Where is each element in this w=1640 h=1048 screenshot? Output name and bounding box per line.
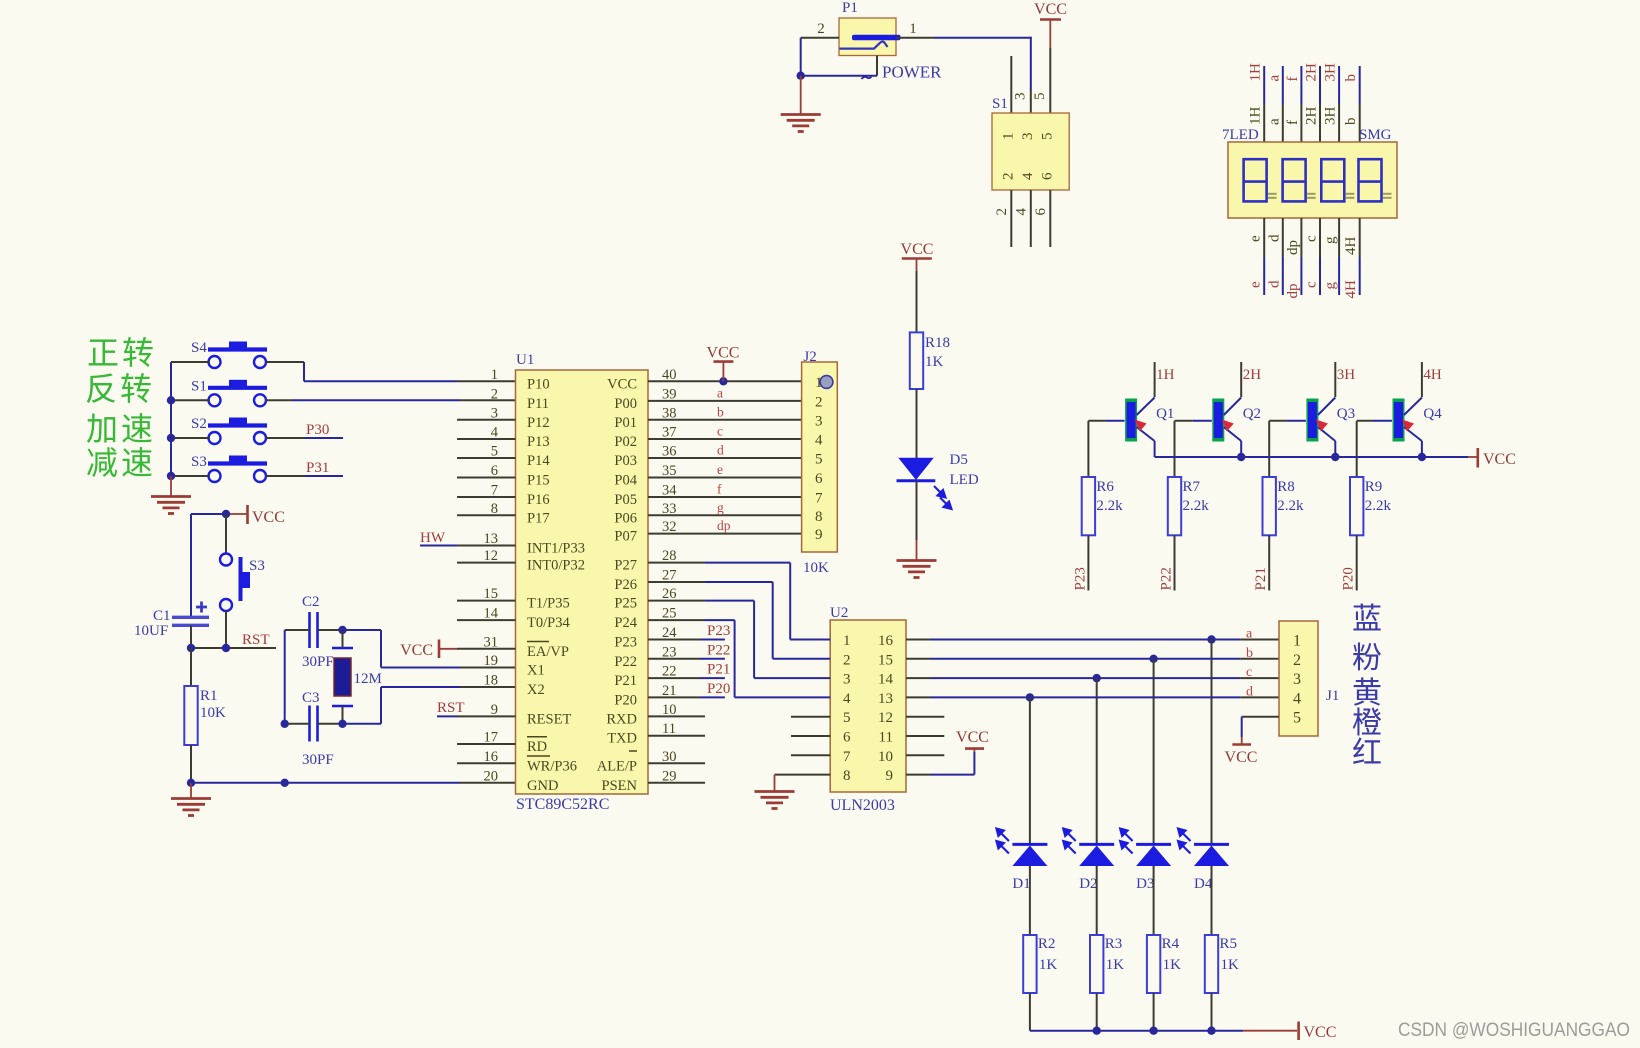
svg-text:d: d: [1246, 684, 1253, 699]
transistor Q2: [1212, 399, 1224, 442]
svg-text:1K: 1K: [1106, 957, 1125, 973]
wire SMG top pin 3: [1300, 66, 1302, 104]
svg-text:6: 6: [843, 730, 851, 746]
svg-text:P20: P20: [707, 681, 730, 697]
svg-text:红: 红: [1352, 737, 1382, 770]
wire U1 P03 to J2 (net d): [648, 457, 802, 459]
svg-text:反转: 反转: [85, 371, 155, 407]
svg-text:黄: 黄: [1352, 677, 1382, 710]
connector J2 (10K network): [802, 362, 838, 552]
svg-text:P17: P17: [527, 510, 550, 526]
junction net a: [1207, 635, 1215, 643]
wire R8 to net P21: [1268, 535, 1270, 590]
J2 pin1 marker circle: [820, 376, 833, 389]
capacitor C3: [308, 706, 311, 742]
svg-text:VCC: VCC: [956, 729, 989, 746]
junction ground rail R1: [187, 779, 195, 787]
junction RST-S3: [222, 644, 230, 652]
svg-text:GND: GND: [527, 778, 558, 794]
svg-text:15: 15: [878, 652, 893, 668]
wire SMG bottom pin 2: [1282, 218, 1284, 257]
svg-text:2: 2: [994, 208, 1010, 216]
wire SMG top pin 6: [1359, 66, 1361, 104]
7-seg digit 4: [1359, 159, 1382, 201]
svg-text:5: 5: [815, 452, 823, 468]
junction rail D3: [1149, 1027, 1157, 1035]
wire U1 P24 to U2 pin4: [648, 619, 705, 621]
svg-text:30PF: 30PF: [302, 752, 334, 768]
wire R2 to rail: [1029, 993, 1031, 1031]
svg-text:P31: P31: [306, 460, 329, 476]
svg-text:dp: dp: [1285, 240, 1301, 255]
svg-text:INT0/P32: INT0/P32: [527, 558, 585, 574]
wire U2 pin 5 stub: [791, 716, 830, 718]
junction X2 node: [338, 720, 346, 728]
junction emitter Q2: [1237, 453, 1245, 461]
wire button bus stubs: [171, 361, 210, 363]
svg-text:g: g: [1323, 236, 1339, 244]
svg-text:VCC: VCC: [252, 509, 285, 526]
svg-text:2H: 2H: [1304, 107, 1320, 126]
svg-text:P14: P14: [527, 453, 550, 469]
wire R18 to D5: [916, 389, 918, 458]
svg-text:e: e: [1248, 281, 1264, 288]
wire U1 stub net P21: [648, 677, 700, 679]
wire net a down to LED: [1211, 640, 1213, 845]
svg-text:5: 5: [1293, 710, 1301, 727]
wire S1 pin6 bottom: [1049, 190, 1051, 247]
svg-text:2: 2: [815, 394, 823, 410]
wire S3 stub net P31: [266, 475, 305, 477]
svg-text:c: c: [1246, 665, 1252, 680]
wire U2 pin15 to J1 pin2 (net b): [906, 658, 930, 660]
resistor R2 1K: [1023, 935, 1036, 993]
svg-text:4H: 4H: [1343, 280, 1359, 299]
wire U1 pin 15 stub: [457, 600, 516, 602]
ground at U2: [755, 790, 795, 793]
connector P1 (power jack): [839, 18, 896, 56]
svg-text:3H: 3H: [1337, 367, 1356, 383]
wire U1 pin 8 stub: [457, 514, 516, 516]
overline RD: [527, 736, 547, 738]
svg-text:1: 1: [491, 367, 498, 383]
junction emitter Q4: [1418, 453, 1426, 461]
svg-text:2.2k: 2.2k: [1365, 498, 1392, 514]
svg-text:3: 3: [491, 405, 498, 421]
svg-text:f: f: [1285, 120, 1301, 125]
svg-text:VCC: VCC: [607, 376, 637, 392]
svg-text:e: e: [1248, 235, 1264, 242]
svg-text:8: 8: [491, 501, 498, 517]
junction bus S2: [167, 434, 175, 442]
svg-text:CSDN @WOSHIGUANGGAO: CSDN @WOSHIGUANGGAO: [1398, 1020, 1630, 1041]
wire emitter rail to VCC: [1155, 456, 1468, 458]
svg-text:4: 4: [1293, 690, 1301, 707]
svg-text:P02: P02: [614, 434, 637, 450]
svg-text:S4: S4: [191, 340, 207, 356]
svg-text:Q4: Q4: [1423, 406, 1442, 422]
svg-text:RST: RST: [437, 700, 465, 716]
svg-text:1: 1: [843, 633, 851, 649]
svg-text:d: d: [717, 443, 724, 458]
svg-text:7: 7: [843, 749, 851, 765]
wire U1 pin 4 stub: [457, 438, 516, 440]
wire VCC to C1 column: [191, 513, 226, 515]
op-amp U1 body (MCU STC89C52RC): [516, 370, 649, 794]
wire SMG bottom pin 5: [1338, 218, 1340, 257]
svg-text:g: g: [1323, 282, 1339, 290]
transistor Q1: [1125, 399, 1137, 442]
svg-text:10: 10: [878, 749, 893, 765]
svg-text:19: 19: [484, 653, 499, 669]
svg-text:f: f: [1285, 77, 1301, 82]
svg-text:INT1/P33: INT1/P33: [527, 541, 585, 557]
svg-text:7LED: 7LED: [1222, 127, 1259, 143]
wire U1 P26 to U2 pin2: [648, 581, 705, 583]
wire U2 pin13 to J1 pin4 (net d): [906, 696, 930, 698]
svg-text:U2: U2: [830, 605, 848, 621]
wire U1 P01 to J2 (net b): [648, 419, 802, 421]
svg-text:1K: 1K: [925, 354, 944, 370]
svg-text:X1: X1: [527, 663, 545, 679]
svg-text:STC89C52RC: STC89C52RC: [516, 796, 609, 813]
svg-text:7: 7: [815, 491, 823, 507]
svg-text:P00: P00: [614, 396, 637, 412]
P1 pin 2: [801, 37, 839, 39]
wire to S3 top: [225, 514, 227, 554]
svg-text:SMG: SMG: [1359, 127, 1392, 143]
resistor R7 2.2k: [1174, 421, 1176, 477]
svg-text:c: c: [1304, 235, 1320, 242]
svg-text:a: a: [1266, 75, 1282, 82]
svg-text:4: 4: [815, 433, 823, 449]
svg-text:1K: 1K: [1039, 957, 1058, 973]
svg-text:P26: P26: [614, 577, 637, 593]
svg-text:10UF: 10UF: [134, 623, 168, 639]
svg-text:P23: P23: [614, 635, 637, 651]
svg-text:R6: R6: [1096, 479, 1114, 495]
overline EA: [527, 641, 549, 643]
svg-text:1H: 1H: [1248, 63, 1264, 82]
svg-text:C1: C1: [153, 608, 171, 624]
svg-text:VCC: VCC: [400, 642, 433, 659]
svg-text:4: 4: [1020, 172, 1036, 180]
wire R3 to rail: [1096, 993, 1098, 1031]
svg-text:2: 2: [817, 21, 825, 37]
svg-text:1H: 1H: [1248, 107, 1264, 126]
svg-text:D4: D4: [1194, 876, 1213, 892]
wire U1 pin 30 stub: [648, 762, 705, 764]
svg-text:P04: P04: [614, 473, 637, 489]
wire U1 pin 14 stub: [457, 619, 516, 621]
svg-text:12M: 12M: [354, 671, 382, 687]
svg-text:VCC: VCC: [1483, 451, 1516, 468]
svg-text:S2: S2: [191, 416, 207, 432]
svg-text:D3: D3: [1136, 876, 1154, 892]
pushbutton S4: [229, 342, 247, 350]
svg-text:g: g: [717, 500, 724, 515]
junction bus S3: [167, 472, 175, 480]
svg-text:P30: P30: [306, 422, 329, 438]
wire C2 left: [285, 629, 310, 631]
resistor R6 2.2k: [1087, 421, 1089, 477]
svg-text:J1: J1: [1326, 688, 1339, 704]
svg-text:P25: P25: [614, 596, 637, 612]
svg-text:蓝: 蓝: [1352, 603, 1382, 636]
wire U1 P27 to U2 pin1: [648, 562, 705, 564]
junction RST-C1: [187, 644, 195, 652]
wire U1 P05 to J2 (net f): [648, 496, 802, 498]
svg-text:U1: U1: [516, 352, 534, 368]
svg-text:7: 7: [491, 483, 498, 499]
svg-text:8: 8: [843, 768, 851, 784]
wire S3 bottom to RST node: [225, 611, 227, 649]
resistor R9 2.2k: [1356, 421, 1358, 477]
wire D2 to R3: [1096, 866, 1098, 935]
svg-text:P20: P20: [614, 692, 637, 708]
ground at buttons: [170, 476, 172, 496]
wire S1 pin4 bottom: [1030, 190, 1032, 247]
svg-text:1H: 1H: [1156, 367, 1175, 383]
svg-text:4: 4: [843, 691, 851, 707]
svg-text:ULN2003: ULN2003: [830, 797, 895, 814]
wire R1 to ground rail: [190, 745, 192, 783]
LED D3: [1136, 843, 1171, 846]
svg-text:3: 3: [843, 672, 851, 688]
wire SMG bottom pin 4: [1319, 218, 1321, 257]
wire P1 bottom pin: [876, 56, 878, 76]
wire U1 P00 to J2 (net a): [648, 400, 802, 402]
junction VCC-S3: [222, 510, 230, 518]
connector J1: [1279, 621, 1318, 736]
overline WR: [527, 755, 550, 757]
transistor Q4: [1393, 399, 1405, 442]
svg-text:P22: P22: [614, 654, 637, 670]
svg-text:b: b: [1343, 74, 1359, 82]
wire U2 pin9 to VCC: [906, 774, 930, 776]
svg-text:正转: 正转: [87, 335, 157, 371]
wire U1 P04 to J2 (net e): [648, 477, 802, 479]
svg-text:c: c: [1304, 281, 1320, 288]
wire U1 P25 to U2 pin3: [648, 600, 705, 602]
svg-text:D5: D5: [950, 452, 968, 468]
svg-text:5: 5: [843, 710, 851, 726]
wire X2 to U1 pin18: [343, 723, 382, 725]
svg-text:c: c: [717, 424, 723, 439]
svg-text:PSEN: PSEN: [602, 778, 638, 794]
svg-text:13: 13: [878, 691, 893, 707]
svg-text:2: 2: [843, 652, 851, 668]
wire U1 pin 29 stub: [648, 782, 705, 784]
wire R5 to rail: [1211, 993, 1213, 1031]
wire U1 pin 3 stub: [457, 419, 516, 421]
svg-text:3: 3: [815, 413, 823, 429]
svg-text:16: 16: [484, 749, 499, 765]
junction P1-ground: [797, 72, 805, 80]
wire U1 pin 11 stub: [648, 735, 705, 737]
svg-text:P24: P24: [614, 615, 637, 631]
svg-text:1: 1: [1001, 133, 1017, 141]
svg-text:P23: P23: [1072, 567, 1088, 590]
svg-text:20: 20: [484, 768, 499, 784]
7-seg digit 1: [1244, 159, 1267, 201]
wire D3 to R4: [1153, 866, 1155, 935]
resistor R8 2.2k: [1268, 421, 1270, 477]
svg-text:2: 2: [491, 386, 498, 402]
wire RST node: [191, 647, 276, 649]
wire D4 to R5: [1211, 866, 1213, 935]
wire U2 pin16 to J1 pin1 (net a): [906, 639, 930, 641]
svg-text:WR/P36: WR/P36: [527, 758, 577, 774]
LED D2: [1079, 843, 1114, 846]
wire ground rail to U1 pin20: [191, 782, 460, 784]
svg-text:R2: R2: [1038, 936, 1056, 952]
svg-text:LED: LED: [950, 472, 979, 488]
svg-text:1: 1: [909, 21, 917, 37]
svg-text:2: 2: [1293, 652, 1301, 669]
wire X1 to U1 pin19: [343, 629, 382, 631]
wire SMG bottom pin 1: [1263, 218, 1265, 257]
svg-text:R5: R5: [1220, 936, 1238, 952]
svg-text:2.2k: 2.2k: [1183, 498, 1210, 514]
wire base Q2: [1175, 420, 1193, 422]
svg-text:S1: S1: [992, 96, 1008, 112]
svg-text:TXD: TXD: [607, 731, 637, 747]
pushbutton S3 (reset): [220, 554, 232, 566]
junction net b: [1149, 655, 1157, 663]
svg-text:2.2k: 2.2k: [1277, 498, 1304, 514]
svg-text:2H: 2H: [1304, 63, 1320, 82]
junction ground rail crystal: [281, 779, 289, 787]
svg-text:2H: 2H: [1243, 367, 1262, 383]
crystal Y1 12M: [332, 647, 353, 650]
svg-text:d: d: [1266, 234, 1282, 242]
svg-text:RST: RST: [242, 632, 270, 648]
wire U1 pin 10 stub: [648, 715, 705, 717]
svg-text:P16: P16: [527, 492, 550, 508]
wire net c down to LED: [1096, 678, 1098, 844]
svg-text:8: 8: [815, 509, 823, 525]
svg-text:R3: R3: [1105, 936, 1123, 952]
svg-text:P1: P1: [842, 0, 858, 16]
resistor R5 1K: [1205, 935, 1218, 993]
svg-text:RESET: RESET: [527, 711, 571, 727]
wire D5 to ground: [916, 481, 918, 540]
wire U1 pin 5 stub: [457, 457, 516, 459]
op-amp U2 body (ULN2003): [830, 620, 906, 792]
svg-text:D2: D2: [1079, 876, 1097, 892]
svg-text:b: b: [1343, 118, 1359, 126]
svg-text:3: 3: [1293, 671, 1301, 688]
svg-text:1K: 1K: [1221, 957, 1240, 973]
wire R9 to net P20: [1356, 535, 1358, 590]
display SMG (4-digit 7-seg): [1228, 142, 1397, 218]
wire P1 pin1 to S1 col2: [934, 37, 1032, 39]
svg-text:P06: P06: [614, 510, 637, 526]
svg-text:VCC: VCC: [707, 345, 740, 362]
power VCC (LED rail): [1297, 1022, 1300, 1041]
svg-text:VCC: VCC: [1304, 1024, 1337, 1041]
svg-text:R18: R18: [925, 335, 950, 351]
svg-text:Q2: Q2: [1243, 406, 1261, 422]
svg-text:14: 14: [484, 606, 499, 622]
wire U2 pin 11 stub: [906, 735, 944, 737]
LED D4: [1194, 843, 1229, 846]
svg-text:粉: 粉: [1352, 642, 1382, 675]
svg-text:P11: P11: [527, 396, 549, 412]
svg-text:2.2k: 2.2k: [1096, 498, 1123, 514]
junction net d: [1026, 693, 1034, 701]
connector S1: [992, 113, 1069, 190]
svg-text:P03: P03: [614, 453, 637, 469]
svg-text:16: 16: [878, 633, 894, 649]
svg-text:VCC: VCC: [1225, 749, 1258, 766]
resistor R18 1K: [916, 271, 918, 332]
junction bus S1: [167, 396, 175, 404]
wire U1 pin 17 stub: [457, 743, 516, 745]
svg-text:a: a: [1246, 627, 1253, 642]
LED D5: [898, 458, 934, 480]
wire C1 to RST node: [190, 626, 192, 649]
wire U2 pin 10 stub: [906, 754, 944, 756]
svg-text:17: 17: [484, 730, 499, 746]
wire J1 pin5 to VCC: [1242, 716, 1279, 718]
svg-text:P07: P07: [614, 529, 637, 545]
svg-text:R9: R9: [1365, 479, 1383, 495]
wire base Q3: [1269, 420, 1287, 422]
svg-text:R8: R8: [1277, 479, 1295, 495]
svg-text:6: 6: [491, 463, 498, 479]
svg-text:R4: R4: [1162, 936, 1180, 952]
svg-text:4H: 4H: [1343, 237, 1359, 256]
svg-text:14: 14: [878, 672, 894, 688]
svg-text:dp: dp: [717, 518, 731, 533]
svg-text:VCC: VCC: [1034, 1, 1067, 18]
svg-text:P21: P21: [614, 673, 637, 689]
junction emitter Q3: [1331, 453, 1339, 461]
wire LED rail to VCC: [1030, 1030, 1243, 1032]
wire SMG bottom pin 3: [1300, 218, 1302, 257]
svg-text:30PF: 30PF: [302, 654, 334, 670]
wire net b down to LED: [1153, 659, 1155, 845]
wire U1 P07 to J2 (net dp): [648, 533, 802, 535]
ground at P1: [800, 76, 802, 114]
svg-text:P05: P05: [614, 492, 637, 508]
svg-text:6: 6: [815, 471, 823, 487]
svg-text:15: 15: [484, 586, 499, 602]
svg-text:b: b: [717, 404, 724, 419]
wire net d down to LED: [1029, 697, 1031, 844]
wire C3 row: [285, 723, 310, 725]
wire base Q1: [1088, 420, 1105, 422]
svg-text:4: 4: [491, 425, 499, 441]
pushbutton S2: [229, 418, 247, 426]
junction C2C3 left: [281, 720, 289, 728]
svg-text:1K: 1K: [1163, 957, 1182, 973]
svg-text:加速: 加速: [86, 411, 156, 447]
power VCC (J1): [1232, 743, 1251, 746]
junction X1 node: [338, 626, 346, 634]
power VCC (U2 pin9): [965, 747, 984, 750]
svg-text:P13: P13: [527, 434, 550, 450]
resistor R1: [190, 648, 192, 686]
svg-text:9: 9: [886, 768, 894, 784]
wire U1 P06 to J2 (net g): [648, 514, 802, 516]
svg-text:ALE/P: ALE/P: [597, 758, 637, 774]
svg-text:5: 5: [491, 444, 498, 460]
wire U2 pin8 to ground: [775, 774, 831, 776]
wire C2 right to X1 node: [318, 629, 343, 631]
